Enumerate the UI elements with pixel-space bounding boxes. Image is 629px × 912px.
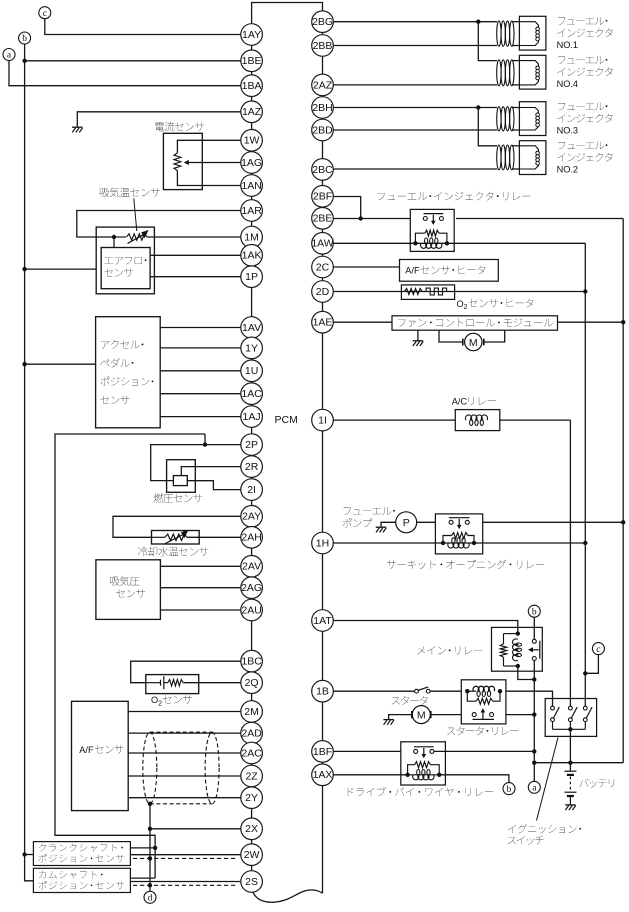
svg-text:2BC: 2BC [312, 164, 333, 176]
svg-text:1AR: 1AR [241, 205, 262, 217]
svg-text:M: M [417, 710, 426, 722]
svg-text:1I: 1I [318, 415, 327, 427]
svg-text:2AY: 2AY [242, 511, 261, 523]
svg-text:2BE: 2BE [313, 213, 333, 225]
svg-text:P: P [403, 517, 410, 529]
svg-text:b: b [22, 34, 27, 44]
svg-text:2BG: 2BG [312, 16, 333, 28]
svg-text:1BE: 1BE [242, 55, 262, 67]
svg-text:1AY: 1AY [242, 29, 261, 41]
svg-text:A/F: A/F [79, 745, 94, 755]
svg-text:2AG: 2AG [241, 582, 262, 594]
svg-text:2: 2 [158, 700, 162, 707]
svg-text:2C: 2C [316, 261, 330, 273]
svg-text:A/F: A/F [405, 266, 420, 276]
svg-text:2AV: 2AV [242, 561, 261, 573]
svg-text:1W: 1W [244, 135, 260, 147]
svg-text:2W: 2W [244, 849, 260, 861]
svg-text:1M: 1M [244, 231, 259, 243]
svg-text:2S: 2S [245, 876, 258, 888]
svg-text:2BB: 2BB [313, 40, 333, 52]
svg-text:b: b [507, 785, 512, 795]
svg-text:c: c [596, 645, 600, 655]
svg-text:2: 2 [464, 304, 468, 311]
svg-text:b: b [532, 607, 537, 617]
svg-text:O: O [457, 299, 464, 309]
svg-text:2BF: 2BF [313, 191, 332, 203]
svg-text:1AW: 1AW [311, 238, 333, 250]
svg-text:2AU: 2AU [241, 604, 261, 616]
svg-text:c: c [43, 9, 47, 19]
svg-text:2R: 2R [245, 461, 259, 473]
svg-text:2M: 2M [244, 706, 259, 718]
svg-text:NO.4: NO.4 [557, 79, 578, 89]
svg-text:NO.3: NO.3 [557, 126, 578, 136]
svg-text:1U: 1U [245, 365, 258, 377]
svg-text:1AT: 1AT [313, 615, 332, 627]
svg-text:2Q: 2Q [245, 677, 259, 689]
svg-text:2Y: 2Y [245, 792, 258, 804]
svg-text:2BD: 2BD [312, 124, 333, 136]
svg-text:PCM: PCM [275, 414, 298, 426]
svg-text:2AZ: 2AZ [313, 79, 333, 91]
svg-text:1AK: 1AK [242, 250, 262, 262]
svg-text:1BF: 1BF [313, 746, 332, 758]
svg-text:2AD: 2AD [241, 728, 262, 740]
svg-text:1AX: 1AX [313, 769, 333, 781]
svg-text:2X: 2X [245, 823, 258, 835]
svg-text:1AZ: 1AZ [242, 106, 262, 118]
svg-text:1AV: 1AV [242, 322, 261, 334]
svg-text:1AN: 1AN [241, 180, 261, 192]
svg-text:1AC: 1AC [241, 388, 262, 400]
svg-text:1BA: 1BA [242, 80, 262, 92]
svg-text:1B: 1B [316, 686, 329, 698]
svg-text:NO.2: NO.2 [557, 165, 578, 175]
svg-text:2BH: 2BH [312, 102, 332, 114]
svg-text:2Z: 2Z [245, 770, 258, 782]
svg-text:O: O [151, 695, 158, 705]
svg-text:2AC: 2AC [241, 747, 262, 759]
svg-text:1Y: 1Y [245, 342, 258, 354]
svg-text:1AJ: 1AJ [243, 411, 261, 423]
svg-text:2AH: 2AH [241, 532, 261, 544]
svg-text:2P: 2P [245, 439, 258, 451]
svg-text:NO.1: NO.1 [557, 40, 578, 50]
svg-text:2I: 2I [247, 484, 256, 496]
svg-text:1P: 1P [245, 271, 258, 283]
svg-text:2D: 2D [316, 286, 330, 298]
svg-text:1BC: 1BC [241, 656, 262, 668]
svg-text:d: d [148, 894, 153, 904]
svg-text:1AG: 1AG [241, 157, 262, 169]
svg-text:1H: 1H [316, 537, 329, 549]
svg-text:1AE: 1AE [313, 317, 333, 329]
svg-text:M: M [469, 337, 478, 349]
svg-text:A/C: A/C [452, 397, 468, 407]
